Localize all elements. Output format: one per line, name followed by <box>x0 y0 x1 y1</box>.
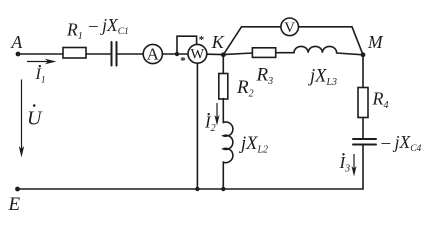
current arrow I2 <box>215 103 220 126</box>
svg-text:A: A <box>11 32 23 52</box>
wire R3 to L3 <box>276 52 294 54</box>
svg-text:E: E <box>8 194 21 215</box>
wire wattmeter down to bottom rail <box>196 63 198 189</box>
svg-text:R2: R2 <box>236 77 254 100</box>
node K <box>221 52 226 57</box>
node junction wattmeter <box>175 52 179 56</box>
current arrow I1 <box>27 59 57 64</box>
wattmeter voltage-coil bracket <box>177 36 197 54</box>
wire wattmeter to node K <box>207 53 224 55</box>
bottom rail wire <box>18 188 364 190</box>
wire ammeter to junction <box>162 53 188 55</box>
resistor R1 <box>63 48 86 59</box>
svg-text:R4: R4 <box>372 89 389 112</box>
svg-text:M: M <box>367 32 384 52</box>
resistor R4 <box>358 88 368 118</box>
svg-text:W: W <box>191 47 205 63</box>
svg-text:– jXC4: – jXC4 <box>381 132 422 154</box>
wire L2 to bottom rail <box>222 162 224 189</box>
inductor L3 <box>294 46 337 52</box>
capacitor C1 <box>112 42 117 66</box>
wire diagonal down to node M <box>352 27 363 55</box>
voltage arrow U <box>19 80 24 158</box>
svg-text:R1: R1 <box>66 19 83 42</box>
wattmeter U-W <box>188 44 207 63</box>
node M <box>361 52 366 57</box>
svg-text:V: V <box>284 20 295 36</box>
wire M down to R4 <box>362 55 364 88</box>
wire top to voltmeter <box>242 26 281 28</box>
svg-text:I3: I3 <box>339 153 351 175</box>
svg-text:I2: I2 <box>204 113 216 135</box>
wire R1 to C1 <box>86 53 111 55</box>
svg-text:I1: I1 <box>35 66 46 86</box>
svg-text:A: A <box>147 45 160 64</box>
resistor R3 <box>252 48 275 58</box>
wire K down to R2 <box>222 55 224 74</box>
wire A to R1 <box>18 53 63 55</box>
svg-text:K: K <box>211 32 225 52</box>
wire L3 to M <box>337 53 363 55</box>
wire K to R3 <box>223 53 252 55</box>
capacitor C4 <box>353 139 376 145</box>
wire C4 to bottom rail <box>362 145 364 190</box>
wire R4 to C4 <box>362 118 364 139</box>
current arrow I3 <box>352 154 357 177</box>
inductor L2 <box>223 122 233 163</box>
wire K diagonal up to top branch <box>223 27 241 55</box>
wire C1 to ammeter <box>117 53 144 55</box>
voltmeter U-V <box>281 18 299 36</box>
ammeter U-A <box>143 44 162 63</box>
junction L2-rail <box>221 187 225 191</box>
svg-text:– jXC1: – jXC1 <box>88 15 129 37</box>
resistor R2 <box>219 74 228 100</box>
svg-text:R3: R3 <box>256 65 274 88</box>
svg-text:jXL2: jXL2 <box>239 134 268 156</box>
svg-text:U: U <box>27 108 43 130</box>
svg-text:*: * <box>180 55 186 67</box>
node E <box>15 187 20 192</box>
node A <box>16 52 21 57</box>
svg-text:*: * <box>199 34 205 46</box>
svg-text:jXL3: jXL3 <box>308 67 337 89</box>
junction wattmeter-rail <box>195 187 199 191</box>
wire voltmeter to top right <box>299 26 353 28</box>
wire R2 to L2 <box>222 99 224 123</box>
